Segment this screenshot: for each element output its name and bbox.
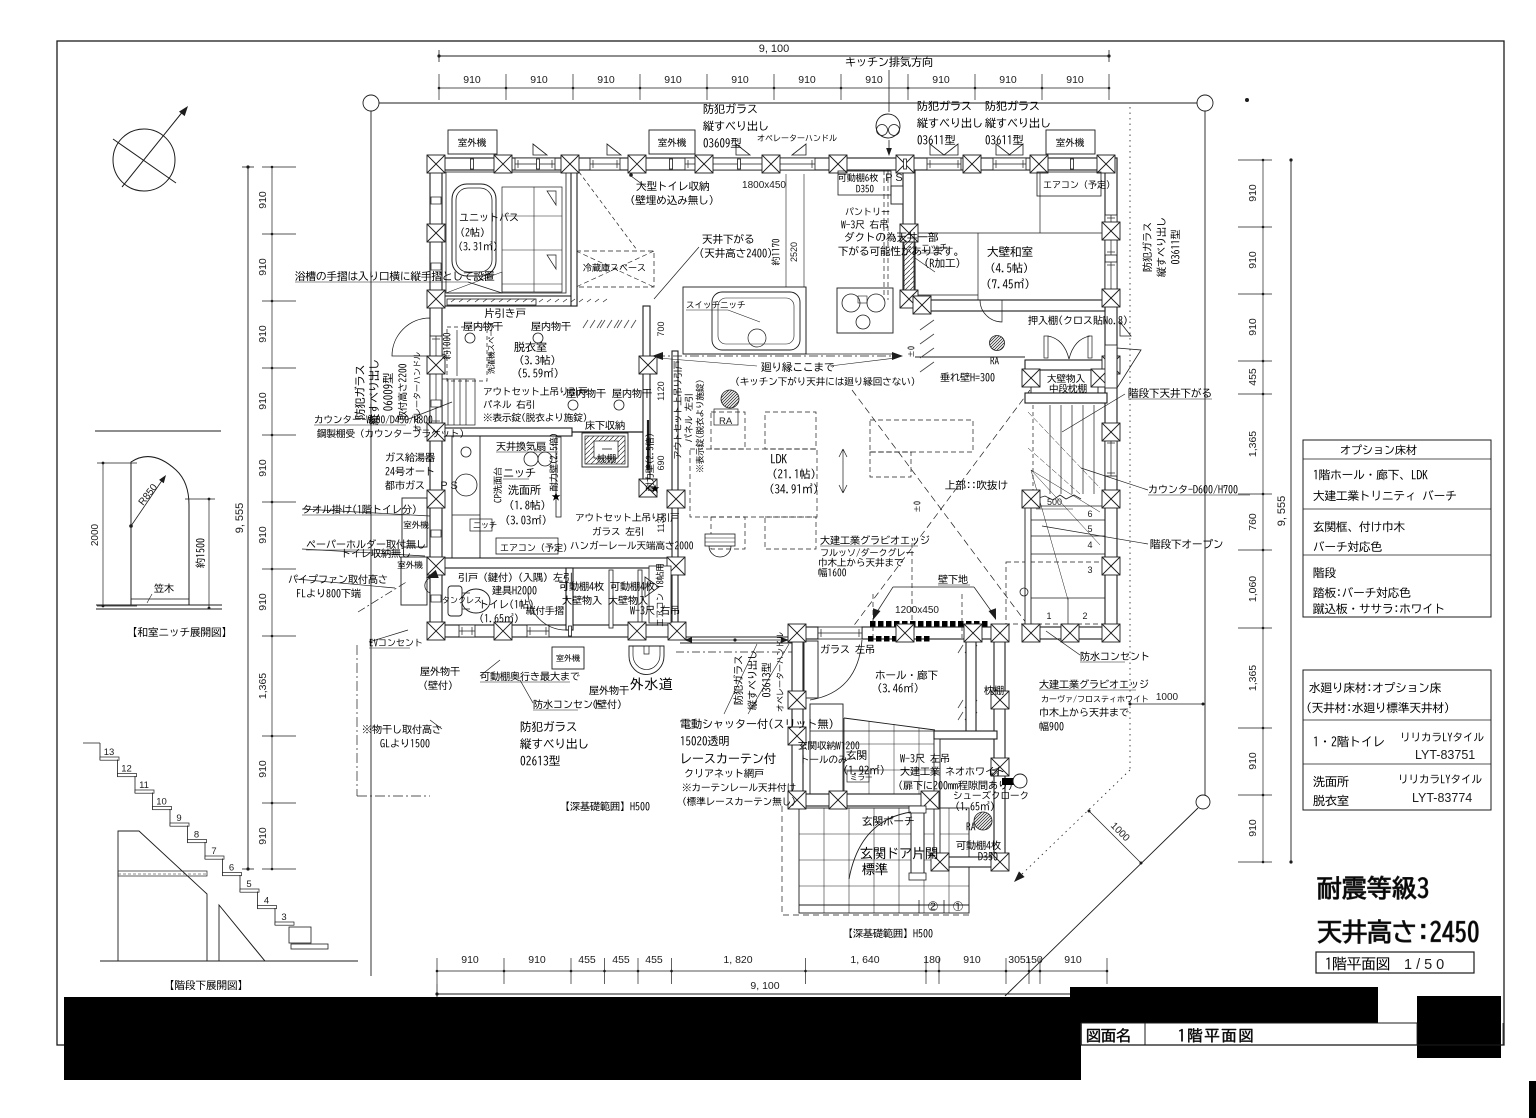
agari-kamachi edge bbox=[844, 718, 935, 730]
dim 500 at stair bbox=[1036, 497, 1073, 509]
west outside annotations bbox=[289, 271, 495, 598]
site boundary east bbox=[1204, 111, 1206, 795]
washitsu side door swing bbox=[1117, 348, 1141, 388]
svg-text:910: 910 bbox=[257, 760, 269, 778]
kitchen counter and sink bbox=[683, 287, 806, 354]
atrium void dashed cross bbox=[852, 390, 1030, 628]
caption: under-stair elevation bbox=[171, 980, 241, 990]
svg-text:150: 150 bbox=[1025, 954, 1043, 966]
dim approx-1000 arrow bbox=[456, 330, 458, 376]
rotated window labels bbox=[354, 218, 1179, 711]
svg-text:LYT-83774: LYT-83774 bbox=[1412, 791, 1472, 805]
flooring direction arrow bbox=[839, 449, 847, 493]
room: dressing room bbox=[514, 342, 546, 352]
kitchen exhaust arrow bbox=[886, 70, 892, 156]
frame edge right of name table bbox=[1502, 1023, 1504, 1045]
svg-text:690: 690 bbox=[656, 455, 666, 470]
label: kasagi coping bbox=[154, 583, 174, 593]
structural posts on grid bbox=[427, 155, 1120, 871]
entry door swing bbox=[849, 812, 911, 879]
svg-text:4: 4 bbox=[1087, 540, 1092, 550]
genkan storage tall bbox=[810, 704, 843, 794]
room: genkan bbox=[846, 750, 866, 760]
svg-text:500: 500 bbox=[1047, 497, 1062, 507]
right dimension: module ticks bbox=[1238, 159, 1272, 864]
room: LDK bbox=[771, 454, 787, 463]
svg-text:910: 910 bbox=[528, 954, 546, 966]
svg-text:910: 910 bbox=[664, 74, 682, 86]
gas stove bbox=[837, 288, 893, 333]
windows bbox=[430, 158, 1117, 639]
vanity counter bbox=[452, 433, 480, 563]
svg-text:2520: 2520 bbox=[789, 242, 799, 262]
svg-text:910: 910 bbox=[597, 74, 615, 86]
svg-text:910: 910 bbox=[1247, 752, 1259, 770]
interior dim labels bbox=[440, 172, 939, 616]
wall: west wing / LDK east bbox=[672, 351, 678, 637]
svg-text:910: 910 bbox=[463, 74, 481, 86]
wall: oshiire south bbox=[1025, 360, 1107, 370]
wall: south-west exterior bbox=[430, 625, 680, 637]
svg-text:910: 910 bbox=[257, 191, 269, 209]
svg-text:910: 910 bbox=[1247, 318, 1259, 336]
svg-text:1,060: 1,060 bbox=[1247, 576, 1259, 602]
svg-text:910: 910 bbox=[731, 74, 749, 86]
hall door swing bbox=[810, 640, 862, 700]
under-stair section drawing bbox=[83, 743, 358, 990]
svg-text:180: 180 bbox=[923, 954, 941, 966]
small arc bbox=[980, 300, 1002, 322]
svg-text:760: 760 bbox=[1247, 513, 1259, 531]
svg-text:1,365: 1,365 bbox=[1247, 431, 1259, 457]
svg-text:910: 910 bbox=[1247, 251, 1259, 269]
svg-text:910: 910 bbox=[999, 74, 1017, 86]
PS duct wall jog bbox=[891, 186, 903, 204]
wall: bath south bbox=[442, 296, 577, 306]
wall: washroom north bbox=[442, 428, 572, 436]
redaction bar bottom middle bbox=[1070, 987, 1378, 1023]
wall: entry east bbox=[994, 631, 1005, 867]
room: washroom bbox=[508, 485, 541, 495]
casement flags bbox=[533, 144, 1131, 336]
title: ceiling height 2450 bbox=[1318, 920, 1478, 944]
bottom dimension: overall 9100 bbox=[435, 980, 1070, 1000]
svg-text:1, 640: 1, 640 bbox=[850, 954, 879, 966]
wall backing leader trapezoid bbox=[869, 587, 999, 621]
north outside annotations bbox=[703, 100, 1050, 147]
underfloor storage box bbox=[582, 433, 628, 467]
RA vent washitsu bbox=[990, 336, 1005, 351]
svg-text:5: 5 bbox=[246, 879, 251, 890]
svg-text:1/50: 1/50 bbox=[1404, 957, 1448, 973]
wall: toilet north bbox=[430, 558, 680, 568]
entry door leaf bbox=[911, 808, 924, 879]
svg-text:910: 910 bbox=[257, 593, 269, 611]
wall: east exterior bbox=[1105, 158, 1117, 639]
svg-text:910: 910 bbox=[530, 74, 548, 86]
svg-text:1: 1 bbox=[1046, 611, 1051, 621]
leader lines bbox=[296, 172, 1148, 729]
svg-text:700: 700 bbox=[656, 321, 666, 336]
svg-text:910: 910 bbox=[963, 954, 981, 966]
washitsu tatami grid bbox=[915, 170, 1105, 311]
wall: stairwell south bbox=[1025, 627, 1117, 639]
svg-text:4: 4 bbox=[264, 896, 269, 907]
svg-text:910: 910 bbox=[461, 954, 479, 966]
title: seismic grade 3 bbox=[1318, 876, 1428, 899]
site boundary line left bbox=[370, 111, 372, 976]
room: washitsu bbox=[987, 246, 1032, 257]
svg-text:910: 910 bbox=[257, 325, 269, 343]
svg-text:6: 6 bbox=[1087, 509, 1092, 519]
entrance porch concrete grid bbox=[799, 808, 969, 913]
svg-text:910: 910 bbox=[257, 459, 269, 477]
wall: shoe closet west thin bbox=[934, 739, 940, 859]
svg-text:2000: 2000 bbox=[90, 523, 101, 546]
svg-text:P S: P S bbox=[440, 480, 458, 492]
oshiire closet double doors bbox=[1044, 336, 1092, 359]
scale box: 1F plan 1/50 bbox=[1316, 952, 1474, 973]
staircase lower flight bbox=[1031, 470, 1105, 625]
unit bath room floor bbox=[446, 172, 566, 293]
sliding door track bbox=[572, 431, 643, 433]
north arrow compass symbol bbox=[113, 104, 191, 191]
redaction bar bottom right bbox=[1417, 996, 1501, 1058]
toilet fixture bbox=[448, 586, 490, 616]
label: kitchen exhaust direction bbox=[846, 57, 932, 67]
svg-text:910: 910 bbox=[1247, 819, 1259, 837]
wall: genkan south bbox=[799, 794, 939, 806]
staircase upper flight bbox=[1028, 405, 1105, 500]
wall: west exterior bbox=[430, 158, 442, 637]
top dimension: overall 9100 bbox=[437, 43, 1110, 62]
svg-text:1800x450: 1800x450 bbox=[742, 180, 786, 191]
svg-text:455: 455 bbox=[1247, 368, 1259, 386]
duct dashed line bbox=[883, 170, 885, 300]
drawing name table bbox=[1081, 1023, 1503, 1045]
svg-text:9, 100: 9, 100 bbox=[759, 43, 790, 55]
wall: hall / makura-dana bbox=[966, 639, 976, 735]
electric shutter dash line bbox=[676, 651, 792, 653]
svg-text:1200x450: 1200x450 bbox=[895, 605, 939, 616]
left dimension: overall 9555 bbox=[234, 165, 254, 870]
svg-text:910: 910 bbox=[257, 258, 269, 276]
top dimension: 910 modules bbox=[438, 74, 1111, 100]
svg-text:10: 10 bbox=[156, 797, 167, 808]
wall: toilet east bbox=[566, 568, 573, 630]
svg-text:7: 7 bbox=[211, 846, 216, 857]
setback dotted line bbox=[1129, 107, 1131, 770]
wall: bath east bbox=[571, 170, 577, 306]
south outside annotations bbox=[363, 639, 1149, 938]
outdoor AC units bbox=[398, 130, 1095, 669]
svg-text:1,365: 1,365 bbox=[257, 673, 269, 699]
svg-text:455: 455 bbox=[578, 954, 596, 966]
wall: washitsu south bbox=[915, 300, 1105, 311]
wall: south veranda line bbox=[680, 636, 797, 638]
svg-text:2: 2 bbox=[1082, 611, 1087, 621]
svg-text:305: 305 bbox=[1008, 954, 1026, 966]
bathtub bbox=[452, 184, 496, 276]
dim label approx-1500 bbox=[195, 539, 205, 568]
svg-text:455: 455 bbox=[612, 954, 630, 966]
plan room + annotation labels bbox=[443, 171, 1250, 875]
ceiling trim arrows bbox=[652, 352, 903, 360]
wall: shoe closet south bbox=[934, 857, 1005, 867]
svg-text:13: 13 bbox=[104, 747, 115, 758]
svg-text:9, 555: 9, 555 bbox=[234, 503, 246, 534]
svg-text:455: 455 bbox=[645, 954, 663, 966]
wall: stairwell west thin bbox=[1025, 494, 1031, 627]
spec table: wet area flooring bbox=[1303, 670, 1491, 810]
west service door bbox=[392, 318, 430, 356]
genkan storage W1200 bbox=[804, 641, 818, 698]
right dimension: overall 9555 bbox=[1276, 158, 1293, 863]
vent fan symbol bbox=[876, 114, 900, 138]
dash-dot lines west bbox=[357, 645, 430, 796]
wall: entry west bbox=[792, 627, 803, 808]
wall: west wing / LDK bbox=[643, 306, 650, 490]
svg-text:11: 11 bbox=[139, 780, 149, 791]
oshiire bottom line bbox=[915, 356, 1025, 358]
room: toilet bbox=[482, 599, 533, 609]
svg-text:3: 3 bbox=[1087, 565, 1092, 575]
bottom dimension: module ticks bbox=[436, 954, 1109, 984]
svg-text:1,365: 1,365 bbox=[1247, 665, 1259, 691]
svg-text:910: 910 bbox=[798, 74, 816, 86]
svg-text:8: 8 bbox=[194, 830, 199, 841]
wall: entry north w/ window gap bbox=[792, 627, 818, 639]
wall: kitchen / washitsu bbox=[903, 170, 915, 300]
svg-text:910: 910 bbox=[932, 74, 950, 86]
svg-text:LYT-83751: LYT-83751 bbox=[1415, 748, 1475, 762]
survey line with end circles bbox=[363, 95, 1213, 111]
site boundary lines SE bbox=[782, 107, 1210, 996]
bench dashed bbox=[1006, 562, 1105, 624]
toilet door swing bbox=[528, 592, 566, 630]
svg-text:1130: 1130 bbox=[656, 513, 666, 532]
svg-text:9, 555: 9, 555 bbox=[1276, 496, 1288, 527]
svg-text:6: 6 bbox=[229, 863, 234, 874]
svg-text:5: 5 bbox=[1087, 524, 1092, 534]
exterior walls bbox=[430, 158, 1117, 867]
svg-text:910: 910 bbox=[257, 526, 269, 544]
room: unit bath bbox=[460, 212, 518, 221]
svg-text:12: 12 bbox=[121, 764, 132, 775]
washer space dashed box bbox=[447, 327, 487, 381]
svg-text:1000: 1000 bbox=[1156, 692, 1179, 703]
svg-text:910: 910 bbox=[865, 74, 883, 86]
RA vent LDK bbox=[721, 390, 739, 408]
room: hall corridor bbox=[876, 670, 938, 680]
svg-text:910: 910 bbox=[257, 827, 269, 845]
wall: north exterior bbox=[430, 158, 1117, 170]
wall: storage south bbox=[1025, 393, 1107, 403]
label: entry porch bbox=[862, 816, 913, 826]
outdoor tap bbox=[629, 646, 664, 675]
shelf with stripes bbox=[442, 379, 475, 425]
svg-text:P S: P S bbox=[885, 172, 903, 184]
svg-text:1, 820: 1, 820 bbox=[723, 954, 752, 966]
redaction bar bottom left bbox=[64, 997, 1081, 1080]
pipe fan on wall bbox=[425, 578, 430, 593]
sliding door leaf bbox=[647, 420, 649, 470]
svg-text:910: 910 bbox=[1247, 184, 1259, 202]
label: entry door bbox=[860, 847, 937, 859]
svg-text:9, 100: 9, 100 bbox=[750, 980, 779, 992]
svg-text:1120: 1120 bbox=[656, 381, 666, 400]
svg-text:9: 9 bbox=[176, 813, 181, 824]
fridge space dashed box bbox=[576, 251, 654, 287]
1200x450 high window dashed marker bbox=[868, 621, 988, 642]
svg-text:910: 910 bbox=[1064, 954, 1082, 966]
hall makura-dana hatching bbox=[583, 320, 977, 720]
interior walls bbox=[430, 170, 1107, 859]
black mark bottom right edge bbox=[1529, 1081, 1536, 1118]
spec table: optional flooring bbox=[1303, 440, 1491, 617]
dining table dashed bbox=[690, 412, 817, 557]
bath sliding door bbox=[447, 299, 607, 305]
svg-text:910: 910 bbox=[1066, 74, 1084, 86]
svg-text:RA: RA bbox=[719, 416, 733, 427]
hatched niche wall bbox=[904, 235, 914, 299]
washitsu naka-dan storage bbox=[1031, 370, 1098, 393]
svg-text:910: 910 bbox=[257, 392, 269, 410]
svg-text:3: 3 bbox=[281, 912, 286, 923]
doors bbox=[392, 299, 1141, 880]
caption: washitsu niche elevation bbox=[134, 627, 225, 637]
SA duct mark bbox=[1002, 778, 1014, 785]
wall: washroom east stub bbox=[556, 437, 561, 517]
washitsu niche elevation drawing bbox=[90, 431, 225, 637]
wall: hall / shoe closet bbox=[934, 731, 997, 739]
sofa dashed bbox=[870, 420, 973, 452]
left dimension: module ticks bbox=[257, 166, 296, 871]
